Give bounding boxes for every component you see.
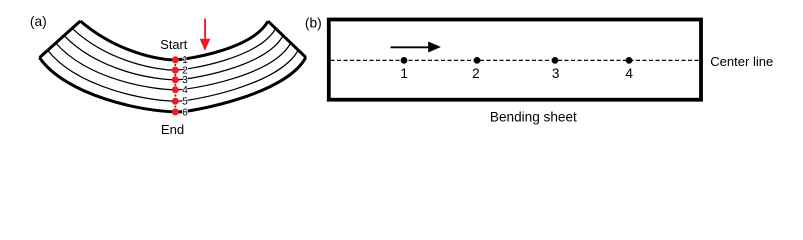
red marker 1 xyxy=(172,56,179,63)
thin layer line 3 xyxy=(64,36,283,80)
red connector dot xyxy=(174,74,176,76)
dashed center line xyxy=(331,59,699,61)
svg-text:3: 3 xyxy=(552,66,560,81)
dot 3 xyxy=(552,57,559,64)
svg-text:6: 6 xyxy=(182,107,188,118)
black right arrow xyxy=(391,46,430,48)
dot 1 xyxy=(401,57,408,64)
red connector dot xyxy=(174,94,176,96)
svg-text:End: End xyxy=(161,122,184,137)
thin layer line 2 xyxy=(72,28,276,70)
red marker 5 xyxy=(172,98,179,105)
svg-text:4: 4 xyxy=(625,66,633,81)
dot 2 xyxy=(474,57,481,64)
bent sheet right end cap xyxy=(268,21,306,57)
svg-text:(b): (b) xyxy=(305,16,322,31)
bent sheet bottom thick arc (line 6) xyxy=(40,57,306,112)
bent sheet left end cap xyxy=(40,21,81,58)
svg-text:Bending sheet: Bending sheet xyxy=(490,110,577,125)
red marker 3 xyxy=(172,76,179,83)
svg-text:Center line: Center line xyxy=(710,54,773,69)
thin layer line 4 xyxy=(56,43,291,90)
red connector dot xyxy=(174,105,176,107)
svg-text:5: 5 xyxy=(182,97,188,108)
bent sheet top thick arc (line 1) xyxy=(80,21,268,60)
svg-text:Start: Start xyxy=(160,37,187,52)
red connector dot xyxy=(174,84,176,86)
thin layer line 5 xyxy=(48,50,299,101)
svg-text:1: 1 xyxy=(400,66,408,81)
svg-text:4: 4 xyxy=(182,85,188,96)
dot 4 xyxy=(626,57,633,64)
svg-text:(a): (a) xyxy=(30,14,47,29)
red marker 6 xyxy=(172,108,179,115)
bending sheet rectangle xyxy=(329,20,701,100)
red connector dot xyxy=(174,64,176,66)
red down arrow xyxy=(204,19,206,40)
svg-text:2: 2 xyxy=(472,66,480,81)
red marker 4 xyxy=(172,86,179,93)
red marker 2 xyxy=(172,67,179,74)
